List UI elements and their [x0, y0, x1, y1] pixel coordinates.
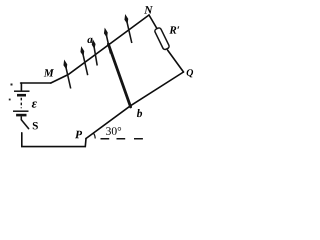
- label S: [33, 122, 38, 129]
- wire P riser and bottom horizontal to switch: [22, 133, 86, 147]
- switch S blade: [21, 120, 28, 129]
- field arrow A2: [81, 47, 88, 75]
- resistor R' body: [154, 27, 170, 50]
- label N: [144, 6, 153, 14]
- battery cell 1 short plate: [17, 94, 26, 97]
- label 30 degrees: [106, 127, 121, 135]
- physics circuit diagram: battery + switch driving rails M N / P Q on 30° incline with bar ab and resistor R': [0, 0, 204, 162]
- dashed horizontal reference line: [101, 138, 143, 140]
- label P: [75, 131, 82, 139]
- field arrow A1: [64, 61, 71, 89]
- battery cell 2 short plate: [16, 114, 26, 117]
- angle arc 30 degrees: [94, 133, 96, 138]
- battery dashed link: [20, 98, 22, 109]
- node N corner to resistor top: [149, 15, 158, 30]
- scan speck 2: [9, 99, 11, 101]
- label a: [87, 38, 92, 43]
- label b: [137, 109, 142, 117]
- field arrow A4 on bar at a: [104, 29, 110, 54]
- label M: [44, 69, 54, 76]
- wire battery top to M (horizontal): [21, 82, 51, 84]
- field arrow A5: [125, 15, 132, 43]
- label R': [169, 26, 179, 33]
- rail MN: [51, 15, 149, 83]
- rail QP (incline): [86, 72, 184, 139]
- wire resistor bottom to Q: [168, 50, 184, 72]
- label Q: [187, 69, 194, 77]
- label epsilon (emf): [32, 102, 37, 108]
- battery stub top: [20, 83, 22, 90]
- battery cell 1 long plate: [14, 90, 30, 92]
- battery cell 2 long plate: [13, 110, 29, 112]
- field arrow A3: [92, 40, 97, 66]
- conducting bar ab: [108, 44, 130, 107]
- scan speck 1: [11, 84, 13, 86]
- battery cell 2 stub down: [20, 116, 22, 119]
